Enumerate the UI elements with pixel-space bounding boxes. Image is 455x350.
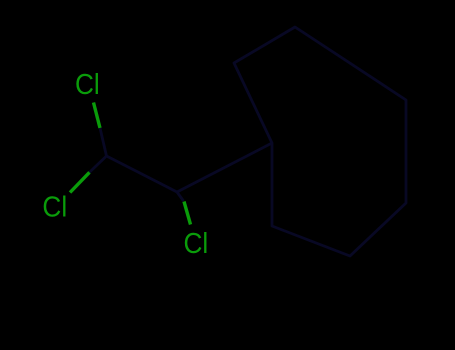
svg-text:Cl: Cl: [42, 190, 67, 222]
svg-text:Cl: Cl: [184, 227, 209, 259]
bond C1-Cl top : carbon half: [100, 128, 107, 156]
bond C1-C2 (dark): [107, 156, 178, 192]
bond C1-Cl top : green half: [94, 103, 101, 129]
bond C2-Cl bottom : green half: [184, 202, 191, 225]
svg-text:Cl: Cl: [75, 68, 100, 100]
bond C1-Cl left : green half: [70, 172, 90, 192]
bond C1-Cl left : carbon half: [90, 156, 107, 172]
bond C2-Cl bottom : carbon half: [177, 192, 184, 201]
bond C2-ring (dark): [177, 143, 272, 192]
cycloalkane ring: [234, 27, 406, 256]
